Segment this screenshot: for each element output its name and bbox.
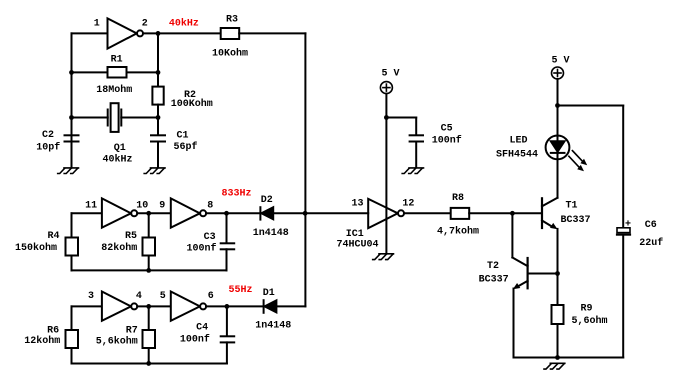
svg-text:R5: R5 (125, 231, 137, 242)
wire T1 emitter down (557, 229, 559, 305)
node: row4 bottom R7 (146, 361, 151, 366)
svg-text:5 V: 5 V (552, 56, 570, 67)
wire R7 vertical (148, 306, 150, 330)
svg-text:9: 9 (159, 201, 165, 212)
wire R6 to bottom (71, 348, 73, 363)
wire C2 to ground (71, 142, 73, 168)
resistor R3 (221, 28, 240, 39)
ground (IC1) (373, 254, 394, 260)
node: crystal right (156, 115, 161, 120)
svg-text:40kHz: 40kHz (169, 18, 199, 30)
wire gate6 out to D1 (206, 305, 263, 307)
wire C6 top vertical (622, 106, 624, 228)
node: C4 tap (225, 304, 230, 309)
inverter gate 1/2 (40kHz osc) (108, 18, 137, 48)
wire row3 gate input (72, 212, 102, 214)
capacitor C2 (65, 135, 79, 141)
svg-text:12: 12 (402, 199, 414, 210)
wire R1 row left (72, 71, 108, 73)
svg-text:+: + (625, 220, 631, 231)
resistor R7 (143, 330, 156, 348)
svg-text:D1: D1 (263, 288, 275, 299)
wire bus to IC1 input (306, 212, 369, 214)
svg-text:3: 3 (88, 291, 94, 302)
node: R1 left (69, 70, 74, 75)
node: T1 emitter / T2 base / R9 (555, 271, 560, 276)
wire T2 base to T1 emitter node (528, 273, 558, 275)
diode D1 (264, 300, 277, 313)
svg-text:11: 11 (85, 201, 97, 212)
svg-text:5: 5 (160, 291, 166, 302)
svg-text:6: 6 (208, 291, 214, 302)
node: gate4 out (146, 304, 151, 309)
resistor R5 (143, 238, 156, 256)
svg-text:2: 2 (142, 19, 148, 30)
svg-text:100nf: 100nf (187, 243, 217, 255)
svg-text:SFH4544: SFH4544 (496, 149, 538, 160)
resistor R1 (108, 67, 127, 78)
wire C4 top vertical (226, 306, 228, 336)
node: crystal left (69, 115, 74, 120)
svg-text:T1: T1 (566, 201, 578, 212)
svg-text:55Hz: 55Hz (229, 285, 253, 296)
resistor R2 (152, 87, 163, 105)
resistor R6 (66, 330, 79, 348)
svg-text:10: 10 (136, 201, 148, 212)
svg-text:74HCU04: 74HCU04 (337, 240, 379, 251)
wire R2 to C1 (157, 105, 159, 135)
wire row4 gate input (72, 305, 102, 307)
wire T2 collector vertical (511, 213, 513, 257)
svg-text:18Mohm: 18Mohm (96, 84, 132, 96)
wire C4 bottom (226, 342, 228, 363)
node: C3 tap (224, 211, 229, 216)
svg-text:150kohm: 150kohm (15, 242, 57, 254)
LED D3 SFH4544 (546, 136, 588, 172)
svg-text:40kHz: 40kHz (103, 153, 133, 165)
wire row3 left vertical (71, 213, 73, 237)
svg-text:C6: C6 (645, 220, 657, 231)
wire crystal row right (121, 117, 158, 119)
wire C3 bottom (226, 249, 228, 270)
power +5V symbol (IC supply) (380, 82, 392, 94)
wire gate10 out (137, 212, 171, 214)
node: bus / IC1 input (303, 211, 308, 216)
wire row4 bottom (72, 362, 227, 364)
svg-text:R4: R4 (48, 231, 60, 242)
wire T2 emitter down (513, 289, 515, 358)
svg-text:C2: C2 (42, 130, 54, 141)
wire R7 to bottom (148, 348, 150, 363)
svg-text:IC1: IC1 (346, 229, 364, 240)
svg-text:4,7kohm: 4,7kohm (437, 226, 479, 238)
svg-text:10Kohm: 10Kohm (212, 48, 248, 60)
svg-text:100nf: 100nf (432, 134, 462, 146)
capacitor C3 (221, 243, 235, 249)
inverter gate 5/6 (55Hz osc) (171, 292, 200, 321)
capacitor C6 electrolytic (617, 228, 630, 235)
svg-text:8: 8 (207, 200, 213, 211)
wire R5 vertical (148, 213, 150, 237)
node: 5V / C5 (384, 115, 389, 120)
wire IC1 out to R8 (404, 212, 451, 214)
resistor R8 (451, 208, 470, 219)
svg-text:82kohm: 82kohm (101, 242, 137, 254)
ground (C2) (58, 168, 79, 174)
svg-text:LED: LED (510, 136, 528, 147)
svg-text:12kohm: 12kohm (24, 335, 60, 347)
svg-text:C1: C1 (177, 131, 189, 142)
svg-text:5 V: 5 V (382, 69, 400, 80)
capacitor C4 (221, 336, 235, 342)
svg-text:BC337: BC337 (479, 275, 509, 286)
svg-text:10pf: 10pf (36, 142, 60, 154)
wire R3 to bus corner (239, 32, 305, 34)
wire R9 to bottom (557, 324, 559, 358)
svg-text:R6: R6 (47, 326, 59, 337)
svg-text:R7: R7 (126, 326, 138, 337)
wire row1 left vertical (71, 33, 73, 167)
crystal Q1 (108, 103, 122, 132)
node: ground bottom right (555, 355, 560, 360)
inverter gate 11/10 (833Hz osc) (102, 198, 131, 227)
wire bottom right (514, 357, 624, 359)
wire right vertical top (157, 33, 159, 86)
wire branch to C6 (558, 105, 624, 107)
transistor T1 BC337 (542, 198, 558, 230)
wire gate8 out to D2 (206, 212, 260, 214)
svg-text:Q1: Q1 (114, 143, 126, 154)
wire vertical bus (304, 33, 306, 306)
wire C1 to ground (157, 142, 159, 168)
wire row4 left vertical (71, 306, 73, 330)
wire 5V down to IC ground (385, 94, 387, 254)
wire crystal row left (72, 117, 108, 119)
svg-text:5,6ohm: 5,6ohm (572, 315, 608, 327)
wire R8 to T1 base (469, 212, 542, 214)
svg-text:1n4148: 1n4148 (255, 321, 291, 332)
node: R8 / T1 base / T2 collector (510, 211, 515, 216)
wire 5V to LED (557, 79, 559, 198)
inverter gate 9/8 (833Hz osc) (171, 198, 200, 227)
svg-text:4: 4 (136, 291, 142, 302)
wire C5 to ground (415, 142, 417, 168)
wire D1 to bus (276, 305, 305, 307)
ground (output stage) (544, 363, 565, 369)
svg-text:R8: R8 (452, 193, 464, 204)
svg-text:R3: R3 (226, 15, 238, 26)
svg-text:100nf: 100nf (180, 334, 210, 346)
wire branch to C5 (386, 117, 416, 119)
node: gate10 out (146, 211, 151, 216)
wire C6 bottom vertical (622, 236, 624, 358)
svg-text:5,6kohm: 5,6kohm (96, 336, 138, 348)
svg-text:D2: D2 (261, 195, 273, 206)
ground (C5) (402, 168, 423, 174)
svg-text:T2: T2 (487, 261, 499, 272)
wire R4 to bottom (71, 256, 73, 271)
svg-text:1n4148: 1n4148 (253, 228, 289, 239)
diode D2 (260, 207, 273, 219)
wire row1 gate input (72, 32, 108, 34)
svg-text:C4: C4 (196, 323, 208, 334)
svg-text:BC337: BC337 (561, 215, 591, 226)
node: 5V / C6 branch (555, 103, 560, 108)
ground (C1) (144, 168, 165, 174)
svg-text:56pf: 56pf (174, 141, 198, 153)
svg-text:C5: C5 (441, 123, 453, 134)
svg-text:22uf: 22uf (639, 237, 663, 249)
wire R5 to bottom (148, 256, 150, 271)
wire C3 top vertical (226, 213, 228, 243)
wire D2 to bus (273, 212, 305, 214)
svg-text:R1: R1 (111, 55, 123, 66)
svg-text:R9: R9 (581, 304, 593, 315)
svg-text:C3: C3 (204, 232, 216, 243)
op-amp-style inverter IC1 gate 13/12 (368, 199, 398, 228)
svg-text:833Hz: 833Hz (222, 189, 252, 200)
power +5V symbol (output stage) (552, 67, 564, 79)
wire gate out to R3 (143, 32, 221, 34)
svg-text:13: 13 (352, 199, 364, 210)
wire gate4 out (137, 305, 171, 307)
wire C5 top (415, 118, 417, 135)
capacitor C1 (151, 135, 165, 141)
node: row3 bottom R5 (146, 268, 151, 273)
node: 40kHz output (156, 31, 161, 36)
svg-text:100Kohm: 100Kohm (171, 98, 213, 110)
inverter gate 3/4 (55Hz osc) (102, 292, 131, 321)
transistor T2 BC337 (mirrored) (512, 258, 527, 290)
node: R1 right (156, 70, 161, 75)
resistor R9 (552, 305, 564, 324)
wire R1 row right (127, 71, 159, 73)
resistor R4 (66, 238, 79, 256)
wire row3 bottom (72, 269, 227, 271)
svg-text:1: 1 (94, 19, 100, 30)
capacitor C5 (410, 135, 423, 141)
